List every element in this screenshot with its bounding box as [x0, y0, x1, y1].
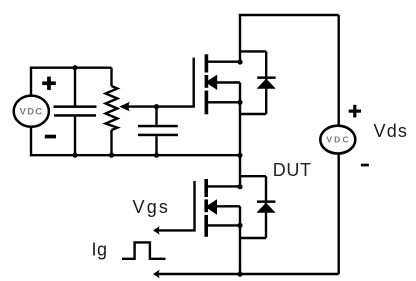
wire: bottom rail — [155, 273, 339, 275]
wire: top rail (Q1 drain to Vds) — [240, 15, 339, 63]
V1 plus sign — [42, 77, 56, 90]
wire: Q2 body corner down to bottom rail — [239, 206, 241, 274]
V2 minus sign — [361, 164, 369, 167]
bottom rail probe arrow — [153, 270, 160, 278]
diode D2 triangle — [256, 203, 275, 213]
node: Q2 source dot — [237, 223, 242, 228]
wire: Vds vertical upper — [338, 15, 340, 126]
V1 minus sign — [45, 135, 56, 139]
source V1 (VDC) — [14, 96, 49, 127]
source V2 (Vds VDC) — [320, 126, 355, 154]
transistor Q1 body lead — [217, 81, 241, 83]
wire: left loop top (V1 top to R1 top) — [31, 68, 112, 96]
potentiometer R1 bottom lead — [110, 130, 112, 155]
svg-text:DUT: DUT — [273, 160, 312, 180]
node: bottom rail dot — [237, 272, 242, 277]
svg-text:VDC: VDC — [326, 135, 351, 145]
Q2 gate probe arrow — [153, 226, 160, 234]
transistor Q1 channel bar segments — [205, 54, 209, 114]
node: Q1 source dot — [237, 100, 242, 105]
svg-text:Ig: Ig — [92, 239, 108, 259]
transistor Q2 body lead — [216, 205, 240, 207]
wire: Vds vertical lower — [338, 154, 340, 275]
wire: D2 bottom return — [240, 237, 266, 239]
node: C1 bottom dot — [72, 153, 77, 158]
transistor Q1 drain stub — [208, 61, 240, 63]
Ig pulse waveform — [122, 242, 166, 258]
node: left rail junction dot — [237, 153, 242, 158]
wire: D2 top branch — [240, 175, 266, 177]
wire: D2 vertical — [265, 176, 267, 238]
diode D2 cathode bar — [257, 200, 275, 203]
V2 plus sign — [349, 105, 361, 118]
potentiometer R1 top lead — [110, 68, 112, 86]
capacitor C1 bottom lead — [74, 117, 76, 156]
svg-text:VDC: VDC — [20, 106, 44, 117]
transistor Q2 (DUT) channel bar segments — [204, 179, 208, 237]
capacitor C2 top lead — [155, 107, 157, 125]
node: C2 bottom dot — [154, 153, 159, 158]
diode D1 triangle — [257, 79, 276, 89]
potentiometer R1 zigzag — [106, 86, 118, 130]
capacitor C2 bottom lead — [155, 136, 157, 155]
capacitor C1 — [54, 105, 97, 116]
transistor Q2 drain stub — [208, 185, 240, 187]
node: top junction dot — [72, 65, 77, 70]
svg-text:Vds: Vds — [374, 121, 409, 141]
wire: D1 bottom return — [240, 113, 266, 115]
R1 wiper arrow — [119, 102, 129, 111]
wire: left loop bottom rail (V1 bottom to node M) — [31, 127, 240, 155]
wire: D1 vertical — [265, 51, 267, 114]
node: wiper junction dot — [154, 104, 159, 109]
transistor Q2 gate lead with bar — [155, 181, 195, 230]
wire: Q1 source down to DUT drain — [239, 83, 241, 188]
node: Q2 drain dot — [237, 184, 242, 189]
transistor Q1 source stub — [208, 101, 240, 103]
diode D1 cathode bar — [257, 76, 275, 79]
wire: D1 top branch — [240, 50, 266, 52]
node: R1 bottom dot — [109, 153, 114, 158]
wire: wiper to Q1 gate — [128, 58, 194, 107]
svg-text:Vgs: Vgs — [133, 197, 171, 217]
transistor Q1 body arrow — [205, 75, 217, 90]
capacitor C2 — [138, 125, 178, 136]
transistor Q2 source stub — [208, 224, 240, 226]
capacitor C1 top lead — [74, 68, 76, 106]
node: Q1 drain dot — [237, 59, 242, 64]
transistor Q2 body arrow — [205, 199, 217, 215]
